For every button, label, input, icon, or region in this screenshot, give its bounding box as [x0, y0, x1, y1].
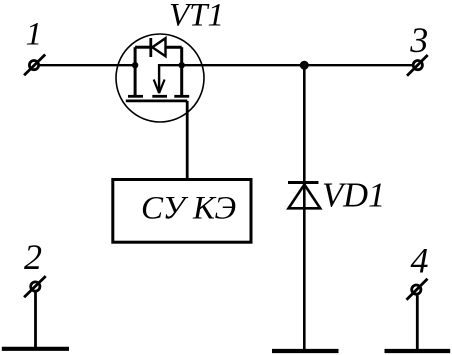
ground bar under terminal 4 — [385, 349, 451, 353]
svg-text:VT1: VT1 — [169, 0, 224, 34]
wire source to terminal 3 (through diode tap) — [159, 64, 412, 66]
node drain junction — [132, 62, 138, 68]
svg-text:3: 3 — [409, 20, 428, 60]
wire T1 to drain — [40, 64, 136, 66]
channel bar left — [128, 95, 143, 98]
terminal 4 — [407, 279, 428, 300]
node diode tap junction — [300, 61, 309, 70]
substrate arrowhead — [154, 80, 159, 94]
transistor VT1 drain lead — [134, 47, 137, 95]
transistor VT1 gate electrode — [126, 100, 187, 103]
wire body-diode anode to source lead — [166, 46, 182, 49]
node source junction — [179, 62, 185, 68]
ground bar under terminal 2 — [2, 347, 69, 351]
ground bar under diode — [272, 349, 339, 353]
terminal 2 — [24, 276, 46, 297]
svg-text:1: 1 — [26, 17, 42, 53]
wire diode branch vertical — [303, 65, 306, 351]
svg-text:2: 2 — [24, 237, 42, 277]
channel bar right — [174, 95, 189, 98]
diode VD1 cathode bar — [288, 181, 319, 184]
transistor VT1 substrate lead — [158, 64, 160, 93]
body diode cathode bar — [149, 38, 152, 57]
svg-text:VD1: VD1 — [322, 176, 385, 214]
wire terminal 4 to bar — [416, 296, 419, 352]
wire drain to body-diode cathode — [135, 46, 150, 49]
terminal 3 — [407, 55, 428, 76]
wire terminal 2 to bar — [34, 292, 37, 350]
diode VD1 triangle — [289, 185, 321, 209]
body diode triangle — [152, 38, 165, 56]
terminal 1 — [24, 55, 45, 76]
transistor VT1 body circle — [116, 34, 204, 122]
channel bar middle — [152, 95, 167, 98]
control box СУ КЭ — [113, 180, 251, 243]
wire gate to control box — [186, 101, 189, 178]
transistor VT1 source lead — [180, 47, 183, 95]
svg-text:СУ КЭ: СУ КЭ — [141, 191, 236, 227]
svg-text:4: 4 — [411, 241, 429, 281]
